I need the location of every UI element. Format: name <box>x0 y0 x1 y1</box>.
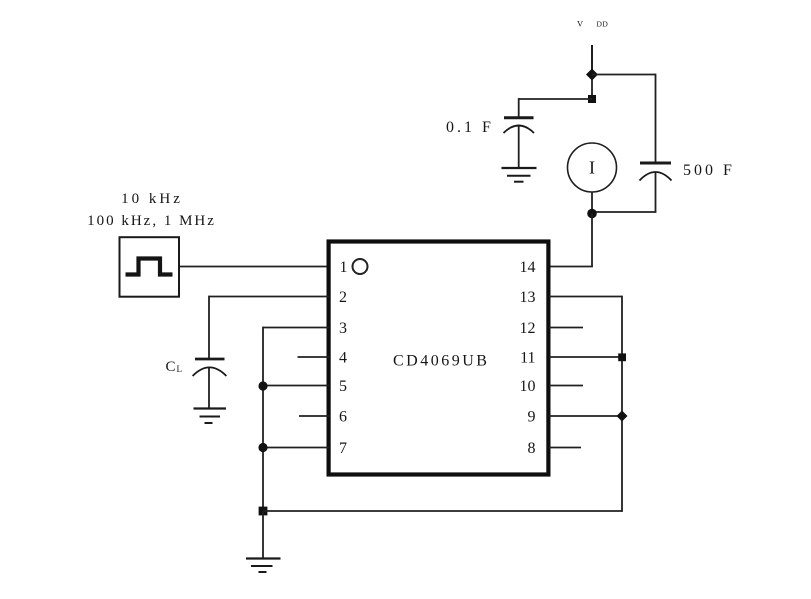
node junction bottom-left (square) <box>259 507 268 516</box>
svg-text:C: C <box>166 359 176 375</box>
IC U1 CD4069UB body <box>329 242 549 475</box>
node junction pin11 bus (square) <box>618 353 626 361</box>
capacitor C2 bottom lead <box>518 126 520 168</box>
wire pin 5 horizontal <box>263 385 329 387</box>
wire into pin 14 <box>549 266 593 268</box>
ground G3 <box>246 559 281 573</box>
wire junction C down to pin14 level <box>591 214 593 267</box>
node junction B (square) <box>588 95 596 103</box>
wire junction B left to C2 <box>519 98 592 100</box>
capacitor C2 curved plate <box>504 126 535 134</box>
wire pin 3 horizontal <box>263 327 329 329</box>
wire pin 9 horizontal <box>549 415 622 417</box>
svg-text:11: 11 <box>520 350 535 367</box>
wire pin 2 horizontal <box>209 296 329 298</box>
wire pin 13 horizontal <box>549 296 622 298</box>
wire pin 4 stub <box>298 356 330 358</box>
pulse generator waveform symbol <box>126 259 173 275</box>
wire pin 7 horizontal <box>263 447 329 449</box>
node junction pin9 bus (diamond) <box>617 411 628 422</box>
svg-text:3: 3 <box>339 320 347 337</box>
wire pin 2 down to CL <box>208 296 210 359</box>
svg-text:9: 9 <box>528 409 536 426</box>
capacitor C3 500uF top plate <box>640 162 671 165</box>
wire pulse generator to pin 1 <box>179 266 329 268</box>
svg-text:10: 10 <box>520 378 536 395</box>
wire meter bottom to junction C <box>591 192 593 214</box>
wire bottom bus horizontal <box>263 510 622 512</box>
wire junction A to junction B <box>591 75 593 99</box>
capacitor CL curved plate <box>193 367 227 376</box>
wire down to ground G3 <box>262 511 264 559</box>
wire VDD drop to junction A <box>591 45 593 75</box>
svg-text:L: L <box>177 364 183 374</box>
ground G2 <box>194 409 227 424</box>
capacitor C3 curved plate <box>640 172 672 181</box>
wire pin 6 stub <box>299 415 329 417</box>
wire left bus vertical <box>262 327 264 511</box>
svg-text:7: 7 <box>339 440 347 457</box>
svg-text:2: 2 <box>339 289 347 306</box>
capacitor CL top plate <box>195 358 225 361</box>
wire pin 10 stub <box>549 385 583 387</box>
svg-text:4: 4 <box>339 350 347 367</box>
svg-text:500 F: 500 F <box>683 162 735 179</box>
svg-text:1: 1 <box>340 259 348 276</box>
IC pin-1 index circle <box>353 259 368 274</box>
node junction C (dot) <box>587 209 597 219</box>
node junction pin7 bus <box>258 443 267 452</box>
svg-text:12: 12 <box>520 320 536 337</box>
svg-text:6: 6 <box>339 409 347 426</box>
node junction pin5 bus <box>258 381 267 390</box>
wire top branch right <box>592 74 656 76</box>
svg-text:14: 14 <box>520 259 536 276</box>
svg-text:CD4069UB: CD4069UB <box>393 353 489 370</box>
svg-text:DD: DD <box>597 20 609 29</box>
capacitor C2 0.1uF top plate <box>504 116 534 119</box>
svg-text:I: I <box>589 158 595 178</box>
svg-text:13: 13 <box>520 289 536 306</box>
wire bottom branch left <box>592 211 656 213</box>
wire pin 12 stub <box>549 327 583 329</box>
pulse generator box <box>120 237 180 297</box>
wire pin 8 stub <box>549 447 581 449</box>
wire right branch down to C3 <box>655 74 657 163</box>
svg-text:100 kHz, 1 MHz: 100 kHz, 1 MHz <box>87 213 216 229</box>
capacitor C3 bottom lead <box>655 173 657 213</box>
node junction A (diamond) <box>586 69 598 81</box>
wire pin 11 horizontal <box>549 356 622 358</box>
ammeter M1 <box>568 143 617 192</box>
svg-text:5: 5 <box>339 378 347 395</box>
wire C2 top lead <box>518 98 520 118</box>
svg-text:0.1 F: 0.1 F <box>446 119 494 136</box>
capacitor CL bottom lead <box>208 368 210 409</box>
ground G1 <box>502 168 537 182</box>
svg-text:8: 8 <box>528 440 536 457</box>
svg-text:10 kHz: 10 kHz <box>121 191 183 207</box>
wire right bus vertical <box>621 296 623 512</box>
svg-text:V: V <box>577 19 584 29</box>
